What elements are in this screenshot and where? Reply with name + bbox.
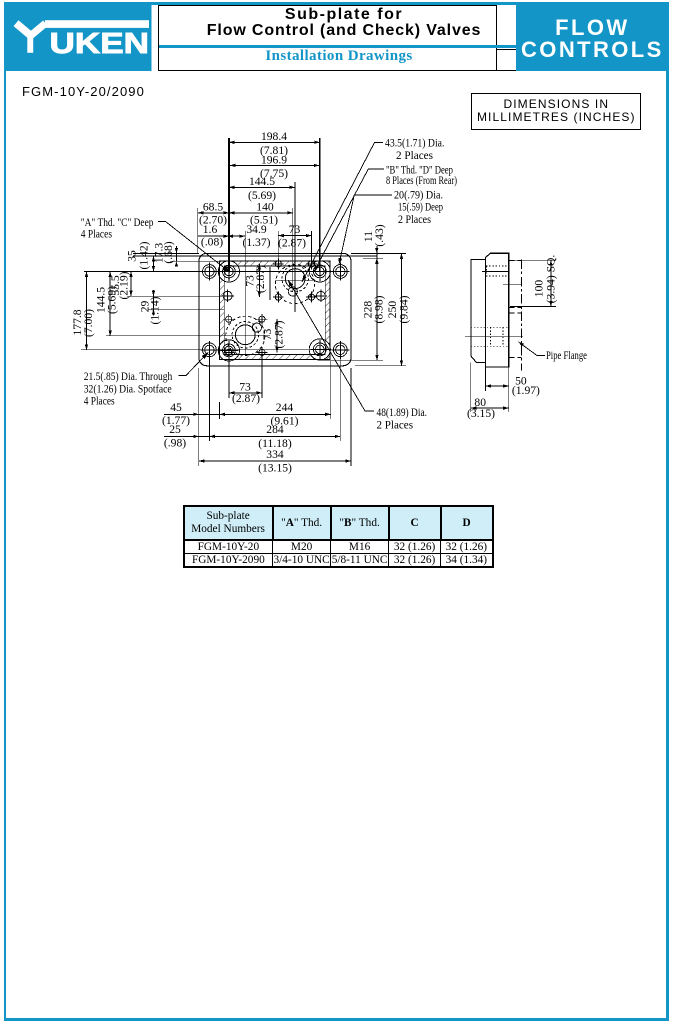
- extension vertical plate right bottom: [350, 368, 352, 466]
- dimension 140: [229, 212, 293, 214]
- subtitle: [170, 48, 509, 65]
- svg-text:(7.00): (7.00): [82, 309, 95, 337]
- corner hole clearance reliefs: [219, 261, 240, 282]
- svg-text:244: 244: [276, 401, 294, 414]
- model code: [22, 84, 145, 99]
- extension vertical port pattern right: [311, 231, 313, 264]
- bottom port centerline horizontal: [106, 335, 270, 337]
- side view hidden bore bottom (dotted): [471, 326, 509, 328]
- extension line upper feature: [133, 255, 377, 257]
- dimension 334: [199, 460, 351, 462]
- callout 21.5 spotface leader: [179, 353, 209, 376]
- svg-text:(2.87): (2.87): [232, 392, 260, 405]
- spotface bolt hole (bottom-left): [203, 343, 217, 357]
- svg-text:Pipe Flange: Pipe Flange: [546, 349, 587, 362]
- extension vertical mounting face left lower: [219, 402, 221, 419]
- svg-text:20(.79) Dia.: 20(.79) Dia.: [394, 188, 443, 201]
- svg-text:4 Places: 4 Places: [81, 227, 113, 240]
- lower flange square bottom edge: [509, 357, 522, 359]
- svg-text:68.5: 68.5: [203, 201, 223, 214]
- extension vertical inner column left: [228, 138, 230, 272]
- corner mounting hole (top-right): [309, 261, 330, 282]
- dimensions box: [471, 93, 641, 130]
- extension vertical spotface column right: [339, 357, 341, 441]
- extension vertical top port center: [294, 182, 296, 312]
- svg-text:(5.69): (5.69): [106, 286, 119, 314]
- svg-text:(13.15): (13.15): [258, 462, 292, 475]
- title line 2: [174, 22, 514, 40]
- extension vertical 140 (pin hole): [292, 208, 294, 292]
- dimension 144.5: [229, 186, 295, 188]
- pattern box line: [269, 267, 271, 300]
- dimension 228: [376, 258, 378, 360]
- svg-text:45: 45: [170, 401, 182, 414]
- svg-text:1.6: 1.6: [203, 223, 218, 236]
- svg-text:284: 284: [266, 423, 284, 436]
- dimension 50: [486, 385, 509, 387]
- callout 20 dia leader: [339, 195, 392, 265]
- valve mounting face square with hatched border: [220, 261, 331, 359]
- svg-text:(3.15): (3.15): [467, 407, 495, 420]
- svg-text:(.68): (.68): [162, 241, 175, 263]
- svg-text:25: 25: [169, 423, 181, 436]
- side view pipe flange outline: [471, 259, 486, 362]
- svg-text:48(1.89) Dia.: 48(1.89) Dia.: [377, 406, 428, 419]
- callout 43.5 dia leader: [302, 142, 383, 282]
- side view port bore line: [482, 271, 509, 273]
- dimension 144.5 vertical: [109, 272, 111, 336]
- logo Y: [16, 23, 31, 36]
- corner mounting hole (top-left): [218, 261, 239, 282]
- spotface bolt hole (top-right): [333, 265, 347, 279]
- svg-text:(1.37): (1.37): [242, 236, 270, 249]
- extension line 11 bottom: [363, 257, 383, 259]
- svg-text:198.4: 198.4: [261, 130, 287, 143]
- pipe flange plane (dash-dot): [521, 260, 523, 371]
- extension line 29 bottom: [148, 308, 224, 310]
- extension line plate bottom extended right: [355, 365, 406, 367]
- svg-text:(9.84): (9.84): [398, 295, 411, 323]
- top port pattern thread hole: [275, 261, 281, 267]
- dimension 45: [164, 413, 225, 415]
- page border left: [4, 2, 7, 1021]
- extension vertical mounting face right lower: [330, 361, 332, 419]
- yuken logo box: [4, 2, 152, 71]
- dimension 17.3: [175, 246, 177, 261]
- hole row centerline bottom: [81, 349, 345, 351]
- flow controls box: [516, 3, 669, 72]
- dimension 68.5: [198, 212, 229, 214]
- side view hidden bore top (dotted): [486, 265, 509, 267]
- extension line flange top: [510, 259, 556, 261]
- svg-text:(.08): (.08): [201, 236, 223, 249]
- svg-text:34.9: 34.9: [246, 223, 266, 236]
- corner mounting hole (bottom-right): [309, 339, 330, 360]
- page border top: [4, 2, 669, 5]
- dimension 73 bottom: [229, 392, 262, 394]
- pipe flange label leader: [519, 342, 546, 356]
- callout 48 dia leader: [288, 280, 374, 411]
- rear thread hole left (B thd): [223, 291, 232, 300]
- dimension 25: [164, 435, 215, 437]
- extension vertical spotface column left: [208, 356, 210, 441]
- extension line flange bottom: [510, 305, 556, 307]
- extension line 228 bottom: [319, 359, 383, 361]
- pin hole 20 dia upper: [288, 287, 297, 296]
- flange square top edge: [509, 260, 522, 262]
- top port pattern thread hole: [275, 294, 281, 300]
- top port centerline: [276, 279, 315, 281]
- svg-text:144.5: 144.5: [249, 175, 275, 188]
- svg-text:15(.59) Deep: 15(.59) Deep: [398, 201, 443, 214]
- spotface bolt hole (bottom-right): [333, 343, 347, 357]
- top port pattern thread hole: [308, 261, 314, 267]
- extension vertical side body left: [485, 367, 487, 391]
- dimension 29: [153, 290, 155, 316]
- svg-text:(1.97): (1.97): [512, 384, 540, 397]
- bottom port flange circle (dashed): [226, 316, 265, 355]
- svg-text:140: 140: [256, 201, 274, 214]
- bottom port pattern thread hole: [259, 316, 265, 322]
- svg-text:2 Places: 2 Places: [396, 149, 433, 162]
- callout A thd leader: [158, 221, 229, 271]
- svg-text:(2.87): (2.87): [278, 236, 306, 249]
- extension vertical plate left top: [197, 208, 199, 253]
- svg-text:UKEN: UKEN: [50, 28, 149, 60]
- extension vertical bottom port center: [244, 231, 246, 355]
- dimension 250: [401, 253, 403, 365]
- sub-plate outline (front view): [199, 253, 351, 365]
- dimension 1.6 line: [198, 235, 245, 237]
- header gap lines: [497, 49, 515, 50]
- svg-text:(1.42): (1.42): [137, 241, 150, 269]
- extension vertical port pattern left: [277, 231, 279, 264]
- bottom port pattern thread hole: [226, 316, 232, 322]
- bottom port centerline: [465, 335, 523, 337]
- top port pattern thread hole: [308, 294, 314, 300]
- dimension 80: [471, 407, 509, 409]
- corner mounting hole (bottom-left): [218, 340, 239, 361]
- extension vertical pattern column left lower: [228, 356, 230, 398]
- top port centerline mark: [503, 283, 522, 285]
- title box: [158, 5, 498, 71]
- extension vertical side body right: [508, 367, 510, 412]
- table: [183, 505, 494, 568]
- bottom port (43.5 dia): [235, 325, 255, 345]
- extension line mounting face top: [170, 260, 220, 262]
- svg-text:(.43): (.43): [373, 224, 386, 246]
- dimension 11: [376, 246, 378, 258]
- top port (43.5 dia): [285, 269, 305, 289]
- hole row centerline top: [84, 271, 345, 273]
- bottom port pattern thread hole: [226, 349, 232, 355]
- extension vertical flange left: [470, 363, 472, 412]
- title line 1: [174, 6, 514, 24]
- dimension 73 bottom port vertical: [276, 319, 278, 352]
- svg-text:(.98): (.98): [164, 436, 186, 449]
- extension line B-hole row: [127, 295, 224, 297]
- DRAWING SVG goes here: [0, 130, 674, 490]
- title cyan rule: [159, 45, 516, 48]
- svg-text:8 Places (From Rear): 8 Places (From Rear): [386, 174, 457, 187]
- svg-text:73: 73: [289, 223, 301, 236]
- top port flange circle (dashed): [275, 264, 314, 303]
- svg-text:(2.87): (2.87): [254, 265, 267, 293]
- logo bar over UKEN: [45, 20, 149, 28]
- callout B thd leader: [314, 169, 384, 272]
- svg-text:43.5(1.71) Dia.: 43.5(1.71) Dia.: [385, 137, 444, 150]
- svg-text:4 Places: 4 Places: [84, 395, 115, 408]
- dimension 196.9: [230, 164, 319, 166]
- svg-text:(3.94) SQ.: (3.94) SQ.: [545, 255, 558, 304]
- dimension 55.5: [130, 272, 132, 297]
- dimension 73 top port vertical: [258, 264, 260, 297]
- dimension 35: [153, 256, 155, 272]
- svg-text:(1.14): (1.14): [149, 296, 162, 324]
- dimension 100 sq: [550, 260, 552, 306]
- dimension 284: [209, 435, 340, 437]
- spotface bolt hole (top-left): [203, 265, 217, 279]
- extension vertical bottom pattern right: [261, 356, 263, 398]
- flange square bottom edge: [509, 307, 522, 309]
- pin hole 20 dia lower: [252, 323, 261, 332]
- svg-text:334: 334: [266, 448, 284, 461]
- dimension 198.4: [229, 141, 320, 143]
- svg-text:(2.87): (2.87): [272, 320, 285, 348]
- side view body outline: [486, 253, 509, 367]
- page border right: [666, 2, 669, 1021]
- svg-text:196.9: 196.9: [261, 153, 287, 166]
- lower flange square top edge: [509, 312, 522, 314]
- extension line plate top extended: [133, 252, 199, 254]
- dimension 244: [220, 413, 331, 415]
- extension vertical inner column right: [319, 138, 321, 271]
- bottom port pattern thread hole: [259, 349, 265, 355]
- svg-text:21.5(.85) Dia. Through: 21.5(.85) Dia. Through: [84, 370, 173, 383]
- dimension 177.8: [86, 272, 88, 350]
- rear thread hole right (B thd): [316, 291, 325, 300]
- svg-text:(2.19): (2.19): [117, 271, 130, 299]
- svg-text:2 Places: 2 Places: [398, 213, 431, 226]
- svg-text:(8.98): (8.98): [373, 295, 386, 323]
- page border bottom: [4, 1018, 669, 1021]
- svg-text:2 Places: 2 Places: [377, 418, 414, 431]
- extension vertical plate left bottom: [198, 368, 200, 466]
- dimension 73 top: [278, 235, 311, 237]
